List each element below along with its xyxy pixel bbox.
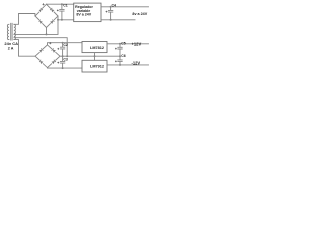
label + of C2 [57, 48, 59, 50]
svg-text:LM7912: LM7912 [90, 65, 104, 69]
wire U2 ground pin [94, 53, 96, 57]
svg-text:+12V: +12V [132, 42, 142, 47]
label + at B1 output [43, 3, 45, 5]
svg-text:LM7812: LM7812 [90, 46, 104, 50]
diode D8 [52, 61, 55, 64]
diode D2 [51, 9, 54, 12]
bridge rectifier B2 diamond [35, 45, 60, 68]
wire secondary tap rail to ground node [14, 38, 67, 57]
svg-text:8v a 24V: 8v a 24V [132, 12, 147, 16]
voltage regulator U3 LM7912 box [82, 60, 107, 72]
svg-text:2 A: 2 A [8, 46, 14, 50]
transformer T1 core [11, 23, 12, 40]
node C1 top [61, 3, 63, 5]
wire CT rail to B1 AC2 [14, 16, 58, 34]
wire B1 minus drop [46, 28, 48, 35]
label + of C3 [57, 62, 59, 64]
node C5 C6 ground [119, 55, 121, 57]
svg-text:C3: C3 [63, 57, 68, 61]
label + at B2 output [49, 42, 51, 44]
svg-text:-12V: -12V [132, 61, 141, 66]
capacitor C3 [60, 56, 64, 68]
wire B2 minus rail to LM7912 input [48, 67, 83, 70]
capacitor C6 [118, 56, 122, 65]
label + of C1 [57, 10, 59, 12]
node C4 bottom [110, 19, 112, 21]
svg-text:C6: C6 [121, 54, 125, 58]
wire B2 plus rail to LM7812 input [48, 43, 83, 45]
svg-text:C2: C2 [63, 43, 68, 47]
diode D4 [50, 21, 53, 24]
svg-text:C5: C5 [121, 42, 125, 46]
capacitor C4 [108, 7, 112, 20]
label + of C4 [106, 11, 108, 13]
label + of C5 [115, 48, 117, 50]
node C2 top [62, 42, 64, 44]
node C5 top [119, 43, 121, 45]
wire regulator in- rail [58, 19, 74, 21]
wire U3 ground pin [94, 56, 96, 60]
diode D1 [39, 9, 42, 12]
svg-text:C4: C4 [112, 3, 117, 7]
regulator U1 box [74, 3, 101, 22]
capacitor C1 [60, 4, 64, 20]
wire -12V rail [107, 64, 149, 66]
wire regulator out+ rail [101, 6, 149, 8]
transformer T1 primary winding [7, 24, 9, 39]
node C4 top [110, 6, 112, 8]
node C3 bottom [62, 67, 64, 69]
svg-text:8V a 24V: 8V a 24V [76, 13, 91, 17]
svg-text:C1: C1 [63, 4, 68, 8]
diode D3 [40, 21, 43, 24]
capacitor C5 [118, 44, 122, 56]
node C2 C3 ground [62, 55, 64, 57]
transformer T1 secondary winding [14, 24, 16, 39]
diode D6 [53, 50, 56, 53]
voltage regulator U2 LM7812 box [82, 42, 107, 53]
node B1 minus on CT rail [46, 33, 48, 35]
junction dots [46, 3, 122, 69]
wire B1 plus rail to regulator input [47, 3, 74, 5]
capacitor C2 [60, 43, 64, 57]
node C1 bottom [61, 19, 63, 21]
wire secondary bottom to bridge B2 AC1 [14, 40, 35, 57]
wire +12V rail [107, 43, 149, 45]
bridge rectifier B1 diamond [35, 4, 58, 27]
wire ground rail [60, 55, 120, 57]
diode D7 [40, 61, 43, 64]
wire regulator out- rail [101, 19, 135, 21]
node regulators ground [94, 55, 96, 57]
diode D5 [39, 50, 42, 53]
label + of C6 [115, 60, 117, 62]
node in- corner [57, 19, 59, 21]
node C6 bottom [119, 64, 121, 66]
wire secondary top to bridge B1 AC1 [14, 14, 35, 25]
node tap on ground rail [66, 55, 68, 57]
